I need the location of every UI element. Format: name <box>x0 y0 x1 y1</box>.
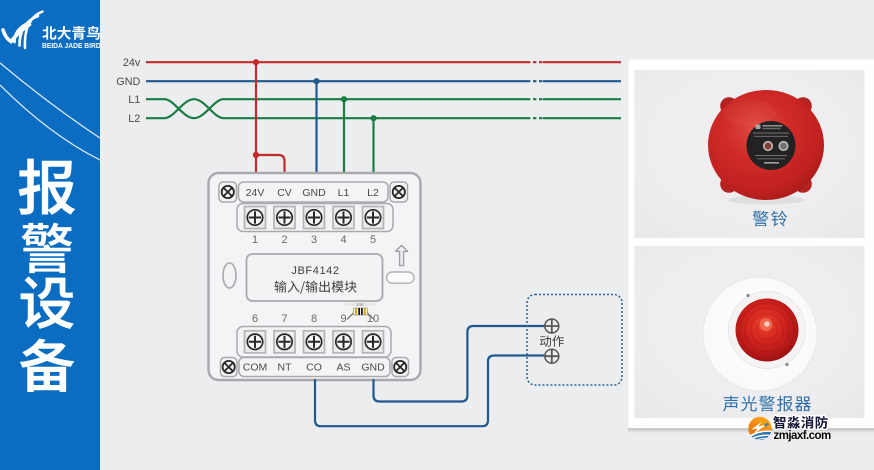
wire 24V drop to terminal 1 <box>255 62 257 174</box>
svg-text:8: 8 <box>311 313 317 325</box>
vertical title 报警设备 <box>19 159 76 215</box>
label 动作 <box>540 335 564 346</box>
svg-text:GND: GND <box>361 362 385 374</box>
brand name 北大青鸟 <box>42 26 100 40</box>
svg-text:AS: AS <box>336 362 350 374</box>
svg-text:24V: 24V <box>246 187 265 199</box>
svg-text:JBF4142: JBF4142 <box>291 265 339 277</box>
svg-text:1: 1 <box>252 234 258 246</box>
module U1 JBF4142 body <box>209 173 421 380</box>
decorative arcs <box>0 63 100 138</box>
wire L1 bus (twisted pair) <box>146 99 527 118</box>
zmjaxf watermark logo <box>744 415 776 443</box>
sound-light strobe photo <box>703 277 817 391</box>
svg-text:GND: GND <box>302 187 326 199</box>
node L1 tap <box>341 96 347 102</box>
svg-text:CO: CO <box>306 362 322 374</box>
orientation arrow <box>396 245 408 265</box>
right product panel background <box>629 60 874 430</box>
svg-text:L2: L2 <box>128 113 140 125</box>
alarm bell photo <box>116 57 831 443</box>
wire L2 drop to terminal 5 <box>372 118 374 174</box>
wire CV branch to terminal 2 <box>256 155 285 174</box>
terminal screws 6-10 <box>237 327 391 358</box>
module nameplate JBF4142 <box>247 254 383 301</box>
actuator terminal upper <box>545 319 559 333</box>
svg-text:10: 10 <box>367 313 379 325</box>
svg-text:9: 9 <box>340 313 346 325</box>
wire L2 bus (twisted pair) <box>146 99 527 118</box>
node 24V tap <box>253 59 259 65</box>
svg-text:BEIDA JADE BIRD: BEIDA JADE BIRD <box>42 43 100 50</box>
actuator dashed box <box>527 295 622 386</box>
svg-text:L1: L1 <box>338 187 350 199</box>
svg-text:5: 5 <box>370 234 376 246</box>
pin numbers 6-10 <box>252 313 379 325</box>
wire GND(10) to actuator upper terminal <box>374 326 546 402</box>
svg-text:6: 6 <box>252 313 258 325</box>
wire GND drop to terminal 3 <box>315 81 317 174</box>
wire CO to actuator lower terminal <box>315 356 545 427</box>
terminal strip top labels <box>219 182 408 202</box>
svg-text:24v: 24v <box>123 57 141 69</box>
svg-text:CV: CV <box>277 187 292 199</box>
node CV branch <box>253 152 259 158</box>
wire GND bus <box>146 80 527 82</box>
svg-text:L2: L2 <box>367 187 379 199</box>
svg-text:4: 4 <box>340 234 346 246</box>
actuator terminal lower <box>545 349 559 363</box>
wire 24V bus <box>146 61 527 63</box>
svg-text:7: 7 <box>281 313 287 325</box>
mounting slot right <box>387 272 415 283</box>
svg-text:zmjaxf.com: zmjaxf.com <box>774 430 831 442</box>
svg-text:10K: 10K <box>356 302 364 307</box>
svg-text:2: 2 <box>281 234 287 246</box>
node GND tap <box>313 78 319 84</box>
svg-text:GND: GND <box>116 76 140 88</box>
resistor EOL 10K between 9 and 10 <box>345 302 375 320</box>
pin numbers 1-5 <box>252 234 376 246</box>
svg-text:3: 3 <box>311 234 317 246</box>
terminal screws 1-5 <box>237 204 393 232</box>
svg-text:L1: L1 <box>128 94 140 106</box>
node L2 tap <box>370 115 376 121</box>
terminal strip bottom labels <box>221 358 409 377</box>
svg-text:COM: COM <box>243 362 268 374</box>
mounting slot left <box>223 263 236 288</box>
svg-text:NT: NT <box>278 362 293 374</box>
brand bird mark <box>3 12 43 49</box>
wire L1 drop to terminal 4 <box>343 99 345 174</box>
